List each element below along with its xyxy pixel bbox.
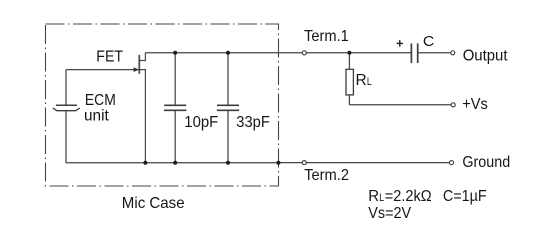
svg-text:L: L — [379, 192, 384, 204]
ECM capsule curved bottom plate — [53, 108, 80, 111]
node: junction dot 10pF top — [173, 51, 177, 55]
svg-text:Term.2: Term.2 — [304, 167, 349, 184]
node: junction dot 33pF bottom — [226, 161, 230, 165]
wire: 33pF lower lead — [227, 111, 229, 163]
ECM capsule top plate — [56, 104, 77, 106]
wire: +Vs line — [349, 104, 453, 106]
svg-text:C=1µF: C=1µF — [443, 188, 487, 205]
enclosure: Mic Case dashed box — [46, 24, 279, 186]
wire: bottom ground rail inside case — [66, 162, 278, 164]
wire: 33pF upper lead — [227, 53, 229, 105]
svg-text:R: R — [368, 188, 379, 205]
wire: RL upper lead from Term.1 node — [348, 53, 350, 70]
node: junction dot FET source at ground rail — [143, 161, 147, 165]
node: junction dot 10pF bottom — [173, 161, 177, 165]
svg-text:Vs=2V: Vs=2V — [368, 205, 411, 222]
svg-text:=2.2kΩ: =2.2kΩ — [385, 188, 432, 205]
wire: 10pF upper lead — [174, 53, 176, 105]
terminal Ground open circle — [449, 161, 453, 165]
FET drain lead — [139, 53, 145, 61]
resistor RL body — [346, 69, 353, 95]
wire: capacitor C right plate to Output terminal — [418, 52, 453, 54]
svg-text:FET: FET — [96, 48, 123, 65]
transistor FET (N-channel JFET) — [134, 53, 146, 163]
wire: ground line Term.2 to Ground terminal — [278, 162, 451, 164]
svg-text:C: C — [423, 33, 435, 50]
svg-text:33pF: 33pF — [236, 114, 270, 131]
wire: ECM left lead lower — [65, 111, 67, 163]
svg-text:Term.1: Term.1 — [304, 28, 349, 45]
terminal Output open circle — [451, 51, 455, 55]
svg-text:L: L — [367, 76, 372, 88]
node: junction dot ground rail at case edge — [276, 161, 280, 165]
FET gate arrowhead — [134, 67, 139, 72]
wire: 10pF lower lead — [174, 111, 176, 163]
wire: RL lower lead down to +Vs line — [348, 95, 350, 105]
microphone capsule of ECM unit — [53, 105, 80, 110]
svg-text:Ground: Ground — [462, 154, 510, 171]
svg-text:R: R — [356, 72, 367, 89]
terminal +Vs open circle — [451, 103, 455, 107]
svg-text:unit: unit — [84, 107, 109, 124]
node: junction dot RL top — [347, 51, 351, 55]
wire: ECM left lead upper — [65, 70, 67, 105]
node: junction dot 33pF top — [226, 51, 230, 55]
wire: top rail (FET drain to capacitor C left plate, through Term.1) — [145, 52, 411, 54]
FET source lead — [139, 70, 145, 163]
capacitor 33pF plates — [217, 105, 239, 110]
capacitor C plates — [411, 43, 417, 63]
terminal Term.1 open circle — [302, 51, 306, 55]
terminal Term.2 open circle — [302, 161, 306, 165]
svg-text:+Vs: +Vs — [462, 96, 488, 113]
FET channel bar — [138, 55, 140, 74]
svg-text:Output: Output — [463, 47, 508, 64]
wire: ECM positive lead (gate wire) — [66, 69, 139, 71]
capacitor 10pF plates — [164, 105, 186, 110]
svg-text:10pF: 10pF — [184, 114, 218, 131]
polarity + sign of capacitor C — [397, 40, 403, 46]
svg-text:Mic Case: Mic Case — [122, 195, 185, 212]
